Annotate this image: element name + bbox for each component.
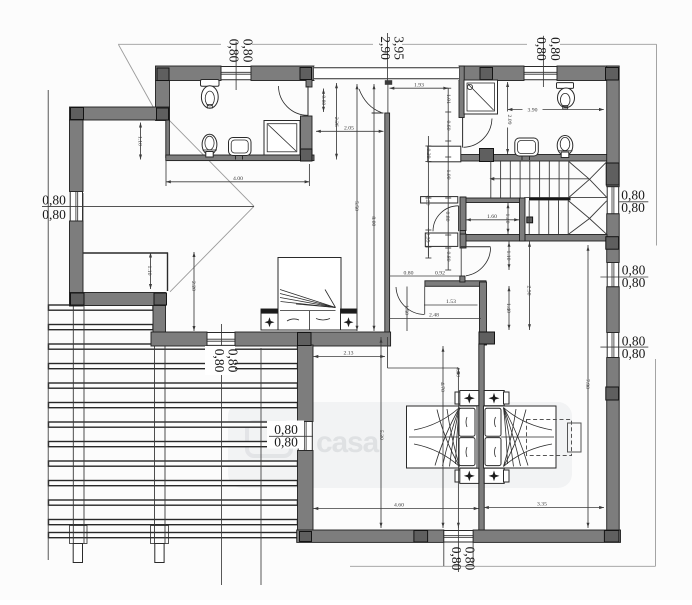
wardrobe bedroom1 bbox=[83, 253, 168, 292]
svg-text:casa: casa bbox=[316, 426, 379, 459]
dim 2.13 horizontal bbox=[314, 355, 386, 358]
wall top exterior segment D bbox=[557, 66, 619, 81]
dim 1.10 bedroom3 vertical bbox=[508, 242, 510, 271]
svg-text:1.01: 1.01 bbox=[445, 94, 451, 104]
dim 0.80 door vertical bbox=[323, 89, 325, 113]
slat row 13 bbox=[49, 533, 298, 538]
pergola post 1 bbox=[72, 306, 74, 544]
column right wall mid bbox=[606, 237, 619, 250]
svg-text:0,80: 0,80 bbox=[212, 349, 227, 373]
dim column x448 vertical bbox=[447, 88, 449, 270]
dim line west window horizontal long bbox=[42, 205, 254, 207]
column bottom wall west bbox=[300, 532, 312, 542]
column right wall lower bbox=[606, 387, 619, 400]
svg-text:2.05: 2.05 bbox=[344, 125, 354, 131]
dim 4.60 horizontal bbox=[314, 507, 479, 510]
wall piece corridor east jamb bbox=[460, 276, 465, 282]
dim line top-right window vertical bbox=[542, 36, 544, 87]
stairs walk line with arrow bbox=[490, 177, 590, 181]
ceiling ridge diagonal lower (bedroom) bbox=[170, 206, 254, 291]
slat row 11 bbox=[49, 500, 298, 505]
dim right window2 divider bbox=[600, 276, 648, 278]
bed bedroom1 bbox=[261, 258, 357, 331]
dim 4.30 vertical bbox=[457, 368, 459, 528]
COLUMNS bbox=[71, 68, 620, 543]
svg-text:7.90: 7.90 bbox=[584, 379, 590, 389]
dim right window3 divider bbox=[600, 346, 648, 348]
column top wall bathroom1 east bbox=[300, 68, 312, 80]
wall bathroom1 east bbox=[301, 116, 313, 155]
svg-text:0,80: 0,80 bbox=[462, 547, 477, 571]
dim 2.05 horizontal bbox=[316, 130, 384, 133]
svg-text:1.60: 1.60 bbox=[487, 214, 497, 220]
wall west upper (above window) bbox=[70, 120, 84, 192]
dim column x428 vertical bbox=[427, 136, 429, 258]
dim 0.35 vertical bbox=[427, 228, 429, 256]
door corridor west bbox=[433, 206, 459, 231]
slat row 3 bbox=[49, 344, 298, 349]
column bathroom1 west base bbox=[157, 108, 169, 120]
wall corridor west piece bbox=[460, 197, 466, 231]
window bottom wall 0,80 bbox=[444, 530, 473, 542]
FIXTURES bathroom 2 bbox=[463, 80, 575, 160]
column bedroom south wall bbox=[298, 333, 312, 346]
svg-text:0.92: 0.92 bbox=[435, 271, 445, 277]
wall right exterior below window3 bbox=[607, 358, 620, 531]
svg-text:1.10: 1.10 bbox=[146, 266, 152, 276]
slat row 8 bbox=[49, 442, 298, 447]
stairs landing black bar bbox=[529, 198, 571, 201]
wall corridor stub B (white) bbox=[425, 233, 458, 246]
slat row 6 bbox=[49, 403, 298, 408]
dim right window1 divider bbox=[619, 201, 648, 203]
WINDOWS bbox=[70, 66, 620, 542]
svg-text:2.20: 2.20 bbox=[190, 281, 196, 291]
svg-text:0.80: 0.80 bbox=[444, 212, 450, 222]
dim bottom window verticals bbox=[443, 542, 445, 566]
svg-text:0,80: 0,80 bbox=[622, 346, 646, 361]
pergola footing 1 bbox=[70, 526, 88, 544]
dim 3.35 horizontal bbox=[484, 506, 604, 509]
dim 5.50 vertical bbox=[356, 84, 358, 331]
column closet pivot block bbox=[527, 217, 533, 223]
dim 1.50 vertical bbox=[406, 287, 408, 332]
slat row 4 bbox=[49, 364, 298, 369]
dim 7.90 vertical bbox=[587, 245, 589, 528]
dim 4.70 vertical bbox=[442, 346, 444, 528]
wall central (bedroom east) bbox=[385, 113, 390, 333]
watermark casa.it bbox=[247, 422, 458, 459]
dim line top-left window vertical bbox=[235, 42, 237, 90]
dim 1.10 bathroom1 vertical bbox=[139, 123, 142, 160]
pergola footing 2 bbox=[151, 526, 169, 544]
bed bedroom2 (left of pair) bbox=[407, 406, 478, 468]
svg-text:2,90: 2,90 bbox=[378, 36, 393, 60]
wall closet west bbox=[460, 197, 466, 241]
sink bathroom2 bbox=[515, 138, 539, 160]
window bedroom south 0,80 bbox=[207, 332, 235, 346]
svg-text:1.93: 1.93 bbox=[414, 82, 424, 88]
svg-text:5.50: 5.50 bbox=[353, 201, 359, 211]
wall closet east / stairwell west bbox=[520, 198, 526, 241]
svg-text:1.50: 1.50 bbox=[403, 305, 409, 315]
svg-text:0.35: 0.35 bbox=[424, 233, 430, 243]
pergola post 2 bbox=[154, 333, 156, 544]
svg-text:4.70: 4.70 bbox=[439, 382, 445, 392]
dim corridor horizontal 0.80 0.98 bbox=[390, 275, 461, 277]
svg-text:3.35: 3.35 bbox=[537, 502, 547, 508]
ceiling ridge diagonal upper (bedroom) bbox=[170, 121, 254, 207]
dim 8.00 vertical bbox=[373, 84, 375, 331]
door bedroom2 bbox=[396, 287, 425, 315]
wall west lower (below window) bbox=[70, 221, 84, 306]
wall bedroom3 west upper bbox=[480, 282, 487, 345]
dim south window vertical bbox=[221, 324, 223, 585]
label 2.09 bbox=[504, 112, 510, 128]
wall corridor west piece lower bbox=[460, 234, 466, 248]
dim 1.93 horizontal bbox=[390, 87, 449, 90]
svg-text:4.30: 4.30 bbox=[454, 367, 460, 377]
roof outline thin lines bbox=[118, 44, 657, 566]
svg-text:2.13: 2.13 bbox=[344, 351, 354, 357]
stairwell west line bbox=[524, 198, 526, 235]
roof hip diagonal top-left bbox=[119, 45, 154, 108]
wall corridor south bbox=[425, 281, 486, 287]
dim 1.40 closet vertical bbox=[507, 203, 509, 234]
slat row 7 bbox=[49, 422, 298, 427]
svg-text:0,80: 0,80 bbox=[227, 39, 242, 63]
dim 1.40 bedroom3 vertical bbox=[508, 286, 510, 330]
dim 1.53 horizontal bbox=[424, 304, 478, 306]
column beds wall top bbox=[479, 332, 495, 344]
dim 5.30 vertical bbox=[380, 337, 382, 528]
wall top exterior segment B bbox=[251, 66, 314, 81]
slat row 9 bbox=[49, 461, 298, 466]
svg-text:0,80: 0,80 bbox=[534, 37, 549, 61]
wall stub bathroom2 entry (white) bbox=[428, 146, 461, 162]
svg-text:3,95: 3,95 bbox=[392, 36, 407, 60]
shower bathroom1 bbox=[264, 121, 300, 156]
column top wall mid bbox=[480, 68, 493, 80]
wall bottom exterior segment A bbox=[297, 530, 444, 542]
svg-text:0,80: 0,80 bbox=[449, 547, 464, 571]
svg-text:0,80: 0,80 bbox=[241, 39, 256, 63]
svg-text:0,80: 0,80 bbox=[621, 200, 645, 215]
roof line top horizontal bbox=[118, 43, 221, 45]
svg-text:0,80: 0,80 bbox=[548, 37, 563, 61]
BIG LABELS bbox=[42, 36, 645, 570]
dim 3.90 horizontal bbox=[508, 108, 604, 111]
nightstand bedroom1 right bbox=[341, 309, 358, 330]
door corridor east bbox=[461, 246, 490, 277]
column bathroom1 south-east bbox=[301, 149, 313, 161]
window right wall 1 bbox=[607, 187, 620, 214]
wall bedroom2 west above window bbox=[298, 345, 314, 422]
svg-text:5.30: 5.30 bbox=[378, 430, 384, 440]
nightstand bedroom1 left bbox=[261, 309, 278, 330]
WALLS bbox=[70, 66, 621, 542]
dim 4.00 bathroom1 bbox=[166, 160, 309, 186]
svg-text:4.00: 4.00 bbox=[233, 176, 243, 182]
wall south-west horizontal bbox=[70, 293, 166, 306]
wall bottom exterior segment B bbox=[473, 530, 620, 542]
DIMENSION LINES bbox=[42, 33, 648, 585]
wall closet north bbox=[460, 198, 525, 203]
svg-text:8.00: 8.00 bbox=[370, 216, 376, 226]
toilet bathroom1 bbox=[201, 80, 220, 109]
wall bathroom2 south bbox=[459, 155, 607, 162]
svg-text:2.50: 2.50 bbox=[526, 286, 532, 296]
svg-text:2.09: 2.09 bbox=[506, 115, 512, 125]
toilet bathroom2 bbox=[557, 83, 575, 109]
stairs lower flight treads bbox=[529, 201, 568, 235]
pergola slats bbox=[48, 90, 297, 563]
wall bathroom1 west upper bbox=[156, 81, 170, 121]
slat row 2 bbox=[49, 325, 154, 330]
wall bathroom1 south bbox=[166, 155, 314, 161]
slat row 1 bbox=[49, 305, 154, 310]
window bedroom2 west 0,80 bbox=[298, 422, 314, 451]
window top wall left 0,80 bbox=[221, 66, 251, 81]
svg-text:0.80: 0.80 bbox=[445, 252, 451, 262]
dim extension lines bedroom2 bbox=[387, 337, 389, 368]
stairs landing line bbox=[524, 197, 607, 199]
wall bathroom1 west thin bbox=[166, 120, 170, 158]
roof line right vertical upper bbox=[656, 44, 658, 245]
svg-text:0.39: 0.39 bbox=[425, 149, 431, 159]
column bathroom2 south bbox=[480, 149, 494, 162]
svg-text:0.80: 0.80 bbox=[404, 271, 414, 277]
svg-text:0,80: 0,80 bbox=[274, 435, 298, 450]
bed bedroom3 (right of pair) bbox=[484, 406, 557, 468]
slat row 12 bbox=[49, 520, 298, 525]
wall jog vertical bbox=[153, 306, 166, 335]
column right wall upper bbox=[606, 163, 619, 185]
svg-text:1.10: 1.10 bbox=[505, 251, 511, 261]
door bedroom1 (central wall top) bbox=[359, 81, 388, 114]
svg-text:3.90: 3.90 bbox=[528, 108, 538, 114]
wall top exterior segment A bbox=[156, 66, 222, 81]
window right wall 3 bbox=[607, 333, 620, 358]
column west wall bottom bbox=[71, 293, 85, 305]
svg-text:1.00: 1.00 bbox=[445, 170, 451, 180]
svg-text:0,80: 0,80 bbox=[622, 275, 646, 290]
slat row 5 bbox=[49, 383, 298, 388]
bidet bathroom2 bbox=[557, 136, 573, 158]
nightstands beds pair top bbox=[455, 391, 509, 406]
desk dashed bedroom3 bbox=[527, 420, 582, 456]
door bathroom1 bbox=[279, 86, 309, 116]
wall right exterior above window1 bbox=[607, 66, 620, 187]
svg-text:1.40: 1.40 bbox=[505, 303, 511, 313]
dim 2.20 bedroom1 vertical bbox=[193, 252, 196, 331]
shower bathroom2 bbox=[464, 80, 498, 114]
dim 2.50 bedroom3 vertical bbox=[529, 242, 531, 331]
label 0,80 0,80 south window rotated bbox=[205, 346, 235, 375]
svg-text:1.10: 1.10 bbox=[137, 136, 143, 146]
svg-text:1.53: 1.53 bbox=[446, 299, 456, 305]
FIXTURES bathroom 1 bbox=[201, 80, 309, 160]
slat row 10 bbox=[49, 481, 298, 486]
dim 2.48 horizontal bbox=[390, 318, 482, 320]
window right wall 2 bbox=[607, 263, 620, 287]
wall bedroom2 west below window bbox=[298, 451, 314, 531]
svg-text:2.48: 2.48 bbox=[429, 313, 439, 319]
label 3.90 bbox=[523, 107, 543, 113]
STAIRS bbox=[490, 162, 607, 235]
dim 2.09 bathroom2 vertical bbox=[506, 82, 509, 154]
svg-text:0.60: 0.60 bbox=[445, 121, 451, 131]
svg-text:4.60: 4.60 bbox=[394, 503, 404, 509]
nightstands beds pair bottom bbox=[455, 468, 509, 483]
wall top exterior segment C bbox=[459, 66, 524, 81]
dim leader line x261 bbox=[260, 348, 262, 585]
wall bedroom south segment A bbox=[151, 332, 207, 346]
bidet bathroom1 bbox=[202, 134, 217, 157]
dim bottom window divider bbox=[457, 526, 459, 572]
dim 1.10 wardrobe vertical bbox=[149, 253, 152, 290]
column jog corner bbox=[154, 293, 167, 305]
stairs upper winders bbox=[569, 162, 607, 198]
stairs lower winders bbox=[568, 201, 607, 235]
roof line bottom horizontal bbox=[350, 565, 656, 567]
label 0,80 0,80 west bedroom2 window bbox=[267, 421, 304, 449]
dim 1.60 closet horizontal bbox=[466, 218, 519, 221]
wall stairs south bbox=[460, 235, 607, 242]
watermark glow band bbox=[228, 402, 572, 488]
column top-left corner bbox=[157, 68, 169, 81]
wall stub below top column bbox=[306, 80, 312, 88]
wall bathroom2 west bbox=[459, 66, 464, 118]
wall corridor stub A (white) bbox=[421, 197, 458, 203]
column bottom wall mid bbox=[414, 531, 428, 543]
stairs upper flight treads bbox=[491, 162, 569, 198]
window top wall right 0,80 bbox=[524, 66, 557, 81]
column top-right corner bbox=[606, 68, 619, 81]
svg-text:0.20: 0.20 bbox=[424, 196, 430, 206]
SMALL DIM LABELS bbox=[137, 82, 590, 508]
dim 2.26 vertical bbox=[336, 83, 338, 160]
pergola left edge line bbox=[47, 90, 49, 560]
sink bathroom1 bbox=[229, 138, 252, 160]
svg-text:2.26: 2.26 bbox=[333, 117, 339, 127]
svg-text:0,80: 0,80 bbox=[42, 193, 66, 208]
door bathroom2 bbox=[463, 118, 492, 148]
wall bedroom north bbox=[70, 107, 170, 120]
svg-text:1.40: 1.40 bbox=[504, 214, 510, 224]
roof line right vertical lower bbox=[655, 359, 657, 566]
window west wall 0,80 bbox=[70, 192, 84, 222]
column west wall top bbox=[71, 108, 84, 120]
svg-text:0,80: 0,80 bbox=[42, 207, 66, 222]
dim west window divider tick bbox=[82, 193, 84, 221]
wall right exterior between windows 1-2 bbox=[607, 214, 620, 263]
column bottom wall east bbox=[604, 531, 619, 543]
dim arrowheads vertical lines bbox=[322, 84, 590, 528]
wall bedroom south segment B bbox=[235, 332, 391, 346]
svg-text:0.80: 0.80 bbox=[320, 95, 326, 105]
wall beds central bbox=[479, 344, 484, 531]
window strip top centre bbox=[314, 67, 459, 85]
svg-text:0,80: 0,80 bbox=[225, 349, 240, 373]
wall right exterior between windows 2-3 bbox=[607, 287, 620, 333]
dim line top-centre vertical bbox=[387, 33, 389, 81]
